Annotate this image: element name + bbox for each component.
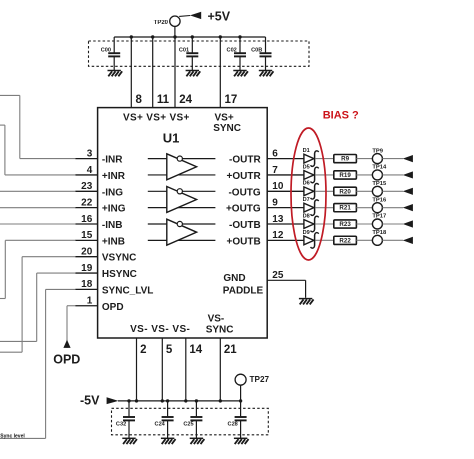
svg-text:C25: C25 xyxy=(183,421,193,427)
svg-text:11: 11 xyxy=(157,94,170,106)
svg-text:SYNC_LVL: SYNC_LVL xyxy=(102,285,153,296)
svg-text:+OUTB: +OUTB xyxy=(227,236,261,247)
svg-text:TP16: TP16 xyxy=(372,197,387,203)
svg-text:VS+ VS+ VS+: VS+ VS+ VS+ xyxy=(123,112,190,123)
svg-text:R9: R9 xyxy=(341,156,349,163)
svg-text:VS+: VS+ xyxy=(215,112,234,123)
svg-text:TP15: TP15 xyxy=(372,181,387,187)
svg-text:10: 10 xyxy=(272,181,284,192)
svg-text:D1: D1 xyxy=(303,148,310,154)
svg-text:-ING: -ING xyxy=(102,187,123,198)
svg-text:3: 3 xyxy=(87,148,93,159)
svg-text:R20: R20 xyxy=(339,188,351,195)
svg-text:R21: R21 xyxy=(339,205,351,212)
svg-text:TP9: TP9 xyxy=(372,148,383,154)
svg-text:OPD: OPD xyxy=(53,353,80,367)
svg-text:TP17: TP17 xyxy=(372,214,386,220)
svg-text:21: 21 xyxy=(224,344,237,356)
svg-text:SYNC: SYNC xyxy=(206,324,234,335)
svg-text:13: 13 xyxy=(272,214,284,225)
svg-text:-5V: -5V xyxy=(80,394,100,408)
svg-text:20: 20 xyxy=(81,247,93,258)
svg-text:SYNC: SYNC xyxy=(213,123,241,134)
svg-text:C28: C28 xyxy=(228,421,238,427)
svg-text:+INR: +INR xyxy=(102,171,126,182)
svg-text:+OUTR: +OUTR xyxy=(227,171,262,182)
svg-text:24: 24 xyxy=(179,94,192,106)
svg-text:C0B: C0B xyxy=(251,48,262,54)
svg-text:-OUTR: -OUTR xyxy=(229,155,261,166)
svg-text:D7: D7 xyxy=(303,197,310,203)
svg-text:R23: R23 xyxy=(339,221,351,228)
svg-text:5: 5 xyxy=(166,344,173,356)
svg-text:TP20: TP20 xyxy=(154,20,169,26)
svg-text:TP18: TP18 xyxy=(372,230,387,236)
svg-text:18: 18 xyxy=(81,279,93,290)
svg-text:C00: C00 xyxy=(101,48,111,54)
svg-text:1: 1 xyxy=(87,296,93,307)
svg-text:HSYNC: HSYNC xyxy=(102,269,137,280)
svg-text:VS-: VS- xyxy=(208,314,225,325)
svg-text:BIAS ?: BIAS ? xyxy=(323,110,359,122)
svg-text:6: 6 xyxy=(272,148,278,159)
svg-text:22: 22 xyxy=(81,197,93,208)
svg-text:23: 23 xyxy=(81,181,93,192)
svg-text:C24: C24 xyxy=(155,421,166,427)
svg-text:VS- VS- VS-: VS- VS- VS- xyxy=(130,324,190,335)
svg-text:16: 16 xyxy=(81,214,93,225)
svg-text:OPD: OPD xyxy=(102,302,124,313)
svg-text:25: 25 xyxy=(272,270,284,281)
svg-text:17: 17 xyxy=(225,94,238,106)
svg-text:PADDLE: PADDLE xyxy=(223,285,264,296)
svg-text:9: 9 xyxy=(272,197,278,208)
svg-text:-OUTB: -OUTB xyxy=(229,220,261,231)
svg-text:U1: U1 xyxy=(163,131,180,146)
svg-text:7: 7 xyxy=(272,165,278,176)
svg-text:R19: R19 xyxy=(339,172,351,179)
svg-text:+ING: +ING xyxy=(102,204,126,215)
svg-text:14: 14 xyxy=(189,344,202,356)
svg-text:C01: C01 xyxy=(179,48,189,54)
svg-text:+INB: +INB xyxy=(102,236,125,247)
svg-text:15: 15 xyxy=(81,230,93,241)
svg-text:D8: D8 xyxy=(303,213,310,219)
svg-text:TP27: TP27 xyxy=(250,375,270,384)
svg-text:8: 8 xyxy=(136,94,143,106)
svg-text:D5: D5 xyxy=(303,164,310,170)
svg-text:VSYNC: VSYNC xyxy=(102,253,136,264)
svg-text:GND: GND xyxy=(223,273,245,284)
svg-text:-INR: -INR xyxy=(102,155,123,166)
svg-text:Sync level: Sync level xyxy=(0,433,25,439)
svg-text:4: 4 xyxy=(87,165,93,176)
svg-text:D6: D6 xyxy=(303,181,310,187)
svg-text:C02: C02 xyxy=(227,48,237,54)
svg-text:19: 19 xyxy=(81,263,93,274)
svg-text:+5V: +5V xyxy=(208,9,231,23)
svg-text:12: 12 xyxy=(272,230,284,241)
svg-text:R22: R22 xyxy=(339,237,351,244)
svg-text:TP14: TP14 xyxy=(372,165,387,171)
svg-text:2: 2 xyxy=(140,344,146,356)
svg-text:-OUTG: -OUTG xyxy=(228,187,260,198)
svg-text:C32: C32 xyxy=(116,421,126,427)
svg-text:+OUTG: +OUTG xyxy=(226,204,261,215)
svg-text:D9: D9 xyxy=(303,230,310,236)
svg-text:-INB: -INB xyxy=(102,220,123,231)
